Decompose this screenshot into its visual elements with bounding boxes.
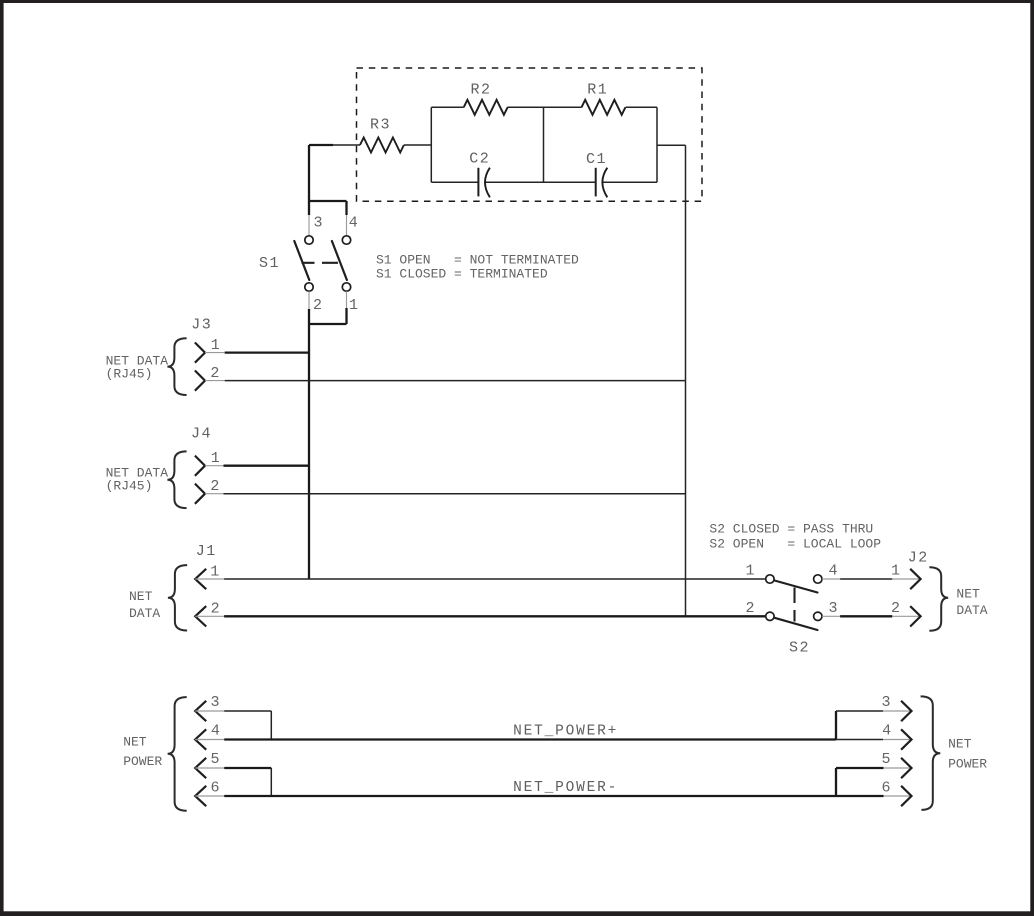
wire: R3 to RC network bbox=[404, 144, 431, 146]
svg-text:1: 1 bbox=[349, 297, 358, 314]
J1 pin2 arrow bbox=[195, 606, 206, 626]
svg-text:3: 3 bbox=[881, 694, 890, 711]
svg-text:1: 1 bbox=[211, 450, 220, 467]
pin stub S1 pin1 bbox=[346, 291, 348, 308]
svg-text:POWER: POWER bbox=[948, 757, 987, 772]
pin stub S1 pin3 bbox=[308, 215, 310, 236]
S1 blade left pole bbox=[294, 241, 309, 280]
capacitor C2 bbox=[469, 150, 490, 197]
svg-text:5: 5 bbox=[210, 751, 219, 768]
J1 brace bbox=[168, 565, 187, 630]
J1 pin2 stub bbox=[195, 615, 224, 617]
svg-text:C1: C1 bbox=[586, 151, 607, 168]
J3 pin2 stub bbox=[205, 380, 225, 382]
power right pin6 arrow bbox=[901, 786, 911, 806]
J2 pin1 stub bbox=[892, 578, 919, 580]
svg-text:J1: J1 bbox=[196, 543, 217, 560]
svg-text:3: 3 bbox=[210, 694, 219, 711]
svg-text:1: 1 bbox=[745, 563, 754, 580]
svg-text:(RJ45): (RJ45) bbox=[106, 479, 153, 494]
power right pin6 stub bbox=[884, 795, 911, 797]
resistor R3 bbox=[360, 117, 404, 153]
wire: R2 top leads bbox=[431, 106, 543, 108]
power connector right (J2 power pins) bbox=[881, 694, 987, 810]
J4 pin1 arrow bbox=[195, 456, 205, 476]
svg-text:1: 1 bbox=[891, 563, 900, 580]
wire: NET_POWER- net bbox=[224, 795, 883, 797]
wire: J1 pin1 to S2 pin1 bbox=[224, 578, 766, 580]
switch S2 bbox=[745, 563, 837, 657]
S2 contact circle pin1 bbox=[766, 575, 774, 583]
svg-text:S1 CLOSED = TERMINATED: S1 CLOSED = TERMINATED bbox=[376, 267, 548, 282]
S1 contact circle pin1 bbox=[342, 283, 350, 291]
svg-text:S1 OPEN = NOT TERMINATED: S1 OPEN = NOT TERMINATED bbox=[376, 252, 579, 267]
svg-text:2: 2 bbox=[313, 297, 322, 314]
svg-text:S2 CLOSED = PASS THRU: S2 CLOSED = PASS THRU bbox=[709, 522, 873, 537]
wire: S1 bottom connection bar bbox=[309, 308, 347, 324]
wire: left pin3 jumper bbox=[224, 711, 271, 740]
J1 pin1 stub bbox=[195, 578, 224, 580]
S1 blade right pole bbox=[332, 241, 347, 280]
power left pin3 arrow bbox=[195, 701, 206, 721]
S1 contact circle pin4 bbox=[342, 236, 350, 244]
wire: R1 top leads bbox=[544, 106, 658, 108]
svg-text:R2: R2 bbox=[470, 82, 491, 99]
wire: right vertical of R1C1 loop bbox=[656, 107, 658, 182]
S2 pin3 stub bbox=[822, 615, 840, 617]
svg-text:4: 4 bbox=[828, 563, 837, 580]
J2 pin2 stub bbox=[892, 615, 919, 617]
wire: right pin5 jumper bbox=[836, 768, 884, 796]
power right pin4 arrow bbox=[901, 729, 911, 749]
svg-text:S2 OPEN = LOCAL LOOP: S2 OPEN = LOCAL LOOP bbox=[709, 537, 881, 552]
wire: NET_POWER+ to right pin4 bbox=[836, 739, 883, 741]
power right pin3 stub bbox=[883, 710, 911, 712]
J3 pin1 arrow bbox=[195, 343, 205, 363]
svg-text:S1: S1 bbox=[259, 255, 280, 272]
wire: S2 pin3 to J2 pin2 bbox=[840, 615, 892, 617]
svg-text:2: 2 bbox=[891, 600, 900, 617]
S2 blade top pole bbox=[775, 581, 818, 593]
connector J4 bbox=[106, 425, 686, 508]
node/wire: left vertical of R2C2 loop bbox=[430, 107, 432, 182]
wire: S1 top node to R3 bbox=[309, 144, 333, 146]
J2 pin1 arrow bbox=[910, 569, 920, 589]
S2 contact circle pin3 bbox=[814, 612, 822, 620]
svg-text:C2: C2 bbox=[469, 150, 490, 167]
svg-text:1: 1 bbox=[211, 337, 220, 354]
svg-text:NET: NET bbox=[129, 589, 153, 604]
wire: middle vertical junction bbox=[543, 107, 545, 182]
S1 contact circle pin2 bbox=[305, 283, 313, 291]
wire: J3 pin2 to right bus bbox=[225, 380, 686, 382]
svg-text:4: 4 bbox=[882, 723, 891, 740]
svg-text:NET_POWER-: NET_POWER- bbox=[513, 780, 618, 796]
power right pin5 arrow bbox=[901, 758, 911, 778]
power right pin5 stub bbox=[884, 767, 911, 769]
svg-text:R1: R1 bbox=[587, 82, 608, 99]
power left pin3 stub bbox=[195, 710, 224, 712]
wire: left pin5 jumper bbox=[224, 767, 271, 769]
svg-text:1: 1 bbox=[210, 563, 219, 580]
svg-text:J3: J3 bbox=[191, 316, 212, 333]
J4 brace bbox=[167, 451, 186, 508]
wire: S2 pin4 to J2 pin1 bbox=[840, 578, 892, 580]
connector J1 bbox=[129, 543, 766, 631]
J4 pin2 stub bbox=[205, 493, 224, 495]
capacitor C1 bbox=[586, 151, 607, 197]
connector J2 bbox=[891, 549, 988, 630]
J3 pin1 stub bbox=[205, 352, 225, 354]
wire: J4 pin2 to right bus bbox=[224, 493, 686, 495]
S2 pin4 stub bbox=[822, 578, 840, 580]
power left pin4 stub bbox=[195, 739, 224, 741]
wire: left vertical bus top (node to S1) bbox=[308, 145, 310, 215]
J3 pin2 arrow bbox=[195, 371, 205, 391]
svg-text:POWER: POWER bbox=[123, 754, 162, 769]
svg-text:NET: NET bbox=[956, 586, 980, 601]
J2 pin2 arrow bbox=[910, 606, 920, 626]
S1 contact circle pin3 bbox=[305, 236, 313, 244]
svg-text:2: 2 bbox=[210, 365, 219, 382]
S2 contact circle pin2 bbox=[766, 612, 774, 620]
S2 contact circle pin4 bbox=[814, 575, 822, 583]
pin stub S1 pin4 bbox=[346, 215, 348, 236]
power left pin6 arrow bbox=[195, 786, 206, 806]
svg-text:DATA: DATA bbox=[956, 603, 987, 618]
power right brace bbox=[921, 696, 941, 810]
svg-text:3: 3 bbox=[828, 600, 837, 617]
svg-text:J4: J4 bbox=[191, 425, 212, 442]
J2 brace bbox=[929, 567, 948, 631]
wire: S1 top connection bar bbox=[309, 201, 347, 215]
wire: right vertical bus (net to J1 pin2 line) bbox=[685, 145, 687, 616]
svg-text:DATA: DATA bbox=[129, 606, 160, 621]
wire: right pin3 jumper bbox=[835, 711, 837, 740]
svg-text:4: 4 bbox=[211, 723, 220, 740]
power connector left (J1 power pins) bbox=[123, 694, 224, 811]
wire: left vertical bus (S1 to J1 pin1 line) bbox=[308, 309, 310, 579]
svg-text:2: 2 bbox=[745, 600, 754, 617]
wire: J3 pin1 to left bus bbox=[225, 351, 309, 353]
svg-text:NET: NET bbox=[948, 737, 972, 752]
svg-text:NET: NET bbox=[123, 735, 147, 750]
svg-text:4: 4 bbox=[349, 215, 358, 232]
svg-text:(RJ45): (RJ45) bbox=[106, 366, 153, 381]
S1 mechanical link (dashed) bbox=[302, 262, 339, 264]
wire: NET_POWER+ net bbox=[224, 738, 836, 740]
connector J3 bbox=[106, 316, 686, 395]
S2 mechanical link (dashed) bbox=[793, 588, 795, 622]
J3 brace bbox=[167, 338, 186, 395]
resistor R2 bbox=[464, 82, 508, 115]
J4 pin2 arrow bbox=[195, 484, 205, 504]
svg-text:6: 6 bbox=[881, 780, 890, 797]
svg-text:3: 3 bbox=[313, 215, 322, 232]
wire: RC network output to right bus bbox=[657, 144, 686, 146]
power right pin4 stub bbox=[883, 739, 911, 741]
wire: J4 pin1 to left bus bbox=[224, 465, 310, 467]
power left pin5 stub bbox=[195, 767, 224, 769]
pin stub S1 pin2 bbox=[308, 291, 310, 309]
svg-text:2: 2 bbox=[210, 478, 219, 495]
S2 blade bottom pole bbox=[775, 618, 818, 630]
wire: C1 bottom leads bbox=[544, 181, 658, 183]
wire: J1 pin2 to S2 pin2 bbox=[224, 615, 766, 617]
svg-text:S2: S2 bbox=[789, 640, 810, 657]
wire: C2 bottom leads bbox=[431, 181, 543, 183]
power left pin6 stub bbox=[195, 795, 224, 797]
svg-text:NET_POWER+: NET_POWER+ bbox=[513, 724, 618, 740]
resistor R1 bbox=[582, 82, 626, 115]
J1 pin1 arrow bbox=[195, 569, 206, 589]
svg-text:2: 2 bbox=[211, 601, 220, 618]
svg-text:6: 6 bbox=[210, 780, 219, 797]
svg-text:R3: R3 bbox=[370, 117, 391, 134]
power left pin5 arrow bbox=[195, 758, 206, 778]
svg-text:5: 5 bbox=[881, 751, 890, 768]
svg-text:J2: J2 bbox=[908, 549, 929, 566]
switch S1 bbox=[259, 215, 358, 314]
J4 pin1 stub bbox=[205, 465, 224, 467]
termination network dashed box bbox=[357, 68, 703, 201]
power left brace bbox=[168, 697, 187, 811]
power right pin3 arrow bbox=[901, 701, 911, 721]
power left pin4 arrow bbox=[195, 729, 206, 749]
